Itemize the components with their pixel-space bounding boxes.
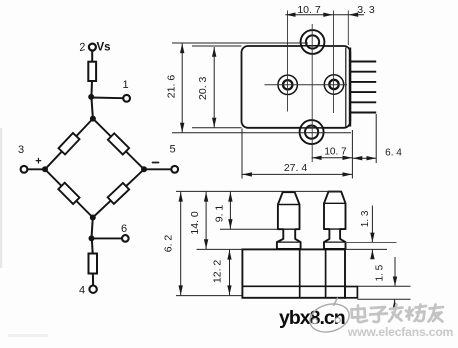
centerline right middle hole (333, 11, 335, 114)
pin 4 (351, 91, 377, 93)
wire bottom node to node B (92, 218, 93, 239)
base flange top line (242, 285, 345, 287)
resistor R2 (top-left arm) (59, 133, 80, 154)
terminal 4 (89, 286, 96, 293)
extension line 1.3 upper (346, 242, 397, 244)
extension line base top left (197, 248, 243, 250)
extension line top for 21.6 (172, 42, 308, 44)
top mounting hole inner (306, 35, 319, 48)
pin 3 (351, 81, 377, 83)
scan smudge bottom left (8, 334, 48, 337)
wire right node to terminal 5 (144, 168, 171, 170)
svg-text:Vs: Vs (97, 42, 111, 54)
logo char zi (370, 307, 387, 322)
logo char you (429, 305, 444, 322)
bottom mounting hole inner (305, 126, 318, 139)
bridge left node (42, 166, 48, 172)
watermark swoosh ellipse around cn (307, 300, 353, 336)
resistor R4 (bottom-left arm) (58, 183, 79, 204)
wire bridge arm top-right (93, 119, 144, 170)
resistor R6 (bottom series) (89, 254, 98, 274)
extension line pin tips (375, 114, 377, 163)
extension line neck (9.1 bottom) (220, 228, 278, 230)
svg-text:10. 7: 10. 7 (324, 147, 347, 158)
watermark donut dot left (312, 319, 317, 324)
terminal 6 (122, 235, 129, 242)
svg-text:14. 0: 14. 0 (189, 211, 201, 235)
port tube right (324, 192, 346, 249)
scan smudge left edge (0, 128, 2, 268)
top mounting hole outer (301, 30, 325, 54)
dimension line 10.7 bottom (312, 157, 353, 159)
svg-text:27. 4: 27. 4 (284, 162, 308, 174)
svg-text:20. 3: 20. 3 (197, 76, 209, 100)
svg-text:+: + (35, 156, 41, 168)
port tube right cap joint line (324, 202, 346, 204)
middle hole left inner (283, 80, 292, 89)
extension line top-left for 20.3 (192, 45, 242, 47)
resistor R3 (top-right arm) (108, 133, 129, 154)
base internal vertical below left tube (299, 249, 301, 297)
body bottom edge segment through bottom hole (300, 127, 323, 129)
port tube left neck joint line (278, 228, 300, 230)
port tube left (277, 192, 301, 249)
package body outline (242, 46, 351, 128)
node B junction dot (89, 235, 95, 241)
extension line 27.4 left (241, 129, 243, 179)
svg-text:9. 1: 9. 1 (213, 205, 225, 223)
dimension line 20.3 (213, 47, 215, 127)
dimension arrow 3.3 (349, 13, 359, 17)
extension line right body edge top (347, 11, 349, 46)
dimension line 21.6 (181, 43, 183, 132)
centerline left middle hole (287, 11, 289, 112)
svg-text:5: 5 (169, 144, 175, 156)
wire R6 to terminal 4 (92, 274, 94, 286)
svg-text:4: 4 (79, 285, 85, 297)
dimension line 6.4 (352, 157, 376, 159)
extension line bottom-left for 20.3 (192, 127, 242, 129)
dimension 1.5 leader and arrows (394, 257, 396, 286)
svg-text:3. 3: 3. 3 (357, 4, 375, 16)
extension line flange bottom right (357, 298, 410, 300)
bottom mounting hole outer (300, 120, 324, 144)
watermark swoosh handle (334, 298, 338, 307)
wire node A to terminal 1 (91, 97, 123, 100)
base internal vertical below right tube (325, 249, 327, 297)
base flange right step (345, 287, 357, 298)
svg-text:3: 3 (18, 144, 24, 156)
middle hole left outer (278, 75, 297, 94)
wire node B to terminal 6 (92, 237, 122, 239)
watermark donut dot right (335, 318, 340, 323)
middle hole right inner (329, 80, 338, 89)
svg-text:6: 6 (121, 223, 127, 235)
dimension line 6.2 (180, 192, 182, 295)
wire node A to bridge top node (91, 97, 93, 119)
resistor R1 (top series) (88, 62, 96, 81)
extension line bottom left (176, 295, 242, 297)
dimension line 10.7 top (285, 14, 364, 16)
dimension line 14.0 (205, 192, 207, 249)
watermark ybx8.cn (279, 298, 352, 337)
base main block (242, 249, 345, 297)
package right edge thick bar (349, 48, 351, 127)
wire R1 to node A (90, 81, 93, 97)
port tube right flange joint line (324, 241, 346, 243)
svg-text:6. 2: 6. 2 (163, 235, 175, 253)
port tube left cap joint line (278, 204, 300, 206)
bridge right node (141, 166, 147, 172)
logo char fa (389, 305, 403, 322)
pin 1 (351, 61, 377, 63)
wire node B to R6 (91, 238, 94, 253)
wire bridge arm bottom-right (93, 169, 144, 217)
crosshair horizontal through middle holes (265, 84, 348, 86)
svg-text:1. 5: 1. 5 (375, 264, 386, 281)
label - (right node polarity) (153, 162, 159, 164)
extension line right body edge bottom (351, 130, 353, 179)
terminal 5 (171, 166, 178, 173)
wire Vs terminal to R1 (91, 51, 93, 62)
extension line side-view top (176, 190, 341, 192)
dimension line 9.1 (229, 192, 231, 229)
terminal 2 (Vs supply terminal) (89, 44, 96, 51)
terminal 3 (21, 166, 28, 173)
port tube left flange joint line (277, 241, 301, 243)
middle hole right outer (324, 75, 343, 94)
logo char dian (352, 306, 368, 323)
svg-text:21. 6: 21. 6 (166, 75, 178, 99)
dimension 1.3 leader and arrows (371, 206, 373, 243)
svg-text:1: 1 (123, 79, 129, 91)
bridge top node (90, 116, 96, 122)
dimension line 12.2 (229, 250, 231, 295)
resistor R5 (bottom-right arm) (108, 183, 129, 204)
svg-text:1. 3: 1. 3 (360, 210, 371, 227)
svg-text:www.elecfans.com: www.elecfans.com (347, 325, 454, 339)
terminal 1 (123, 95, 130, 102)
pin 5 (351, 101, 377, 103)
logo char shao (406, 305, 426, 322)
svg-text:10. 7: 10. 7 (297, 4, 321, 16)
extension line bottom for 21.6 (172, 132, 351, 134)
vertical centerline through top and bottom holes (311, 24, 313, 162)
pin 6 (351, 112, 377, 114)
wire bridge arm top-left (45, 119, 93, 170)
extension line flange top right (357, 285, 410, 287)
svg-text:12. 2: 12. 2 (212, 260, 224, 284)
wire bridge arm bottom-left (45, 169, 93, 217)
wire left node to terminal 3 (28, 168, 46, 170)
port tube right neck joint line (324, 228, 346, 230)
svg-text:6. 4: 6. 4 (385, 148, 402, 159)
pin 2 (351, 71, 377, 73)
node A junction dot (88, 94, 94, 100)
body top edge segment through top hole (301, 45, 324, 47)
extension line base top right (345, 248, 387, 250)
bridge bottom node (90, 215, 96, 221)
package right inner seam line (345, 48, 347, 127)
watermark elecfans logo: 电子发烧友 drawn strokes (352, 305, 444, 323)
dimension line 27.4 (242, 173, 352, 175)
